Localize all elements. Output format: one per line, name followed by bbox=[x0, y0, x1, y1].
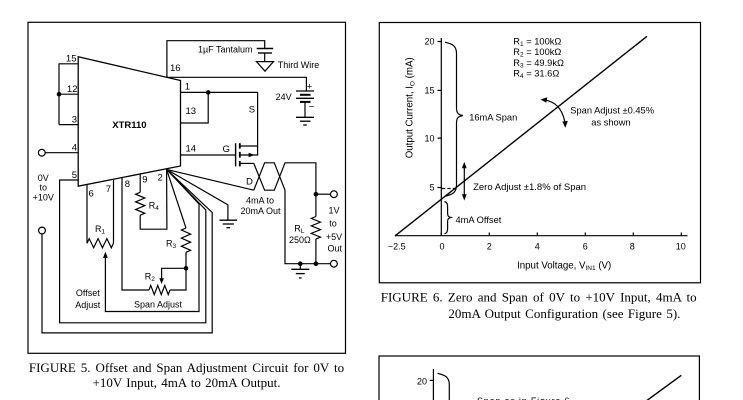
svg-text:16mA Span: 16mA Span bbox=[469, 113, 517, 123]
svg-text:−: − bbox=[309, 102, 315, 113]
twisted pair strand B to load return bbox=[254, 163, 331, 264]
svg-text:7: 7 bbox=[106, 184, 111, 195]
wire pin 2 to twisted pair (drain return) bbox=[167, 169, 254, 190]
svg-text:D: D bbox=[246, 177, 253, 188]
figure 5 border frame bbox=[28, 22, 346, 353]
svg-text:Span as in Figure 6: Span as in Figure 6 bbox=[477, 396, 570, 400]
svg-text:as shown: as shown bbox=[591, 117, 630, 127]
svg-text:250Ω: 250Ω bbox=[289, 235, 311, 245]
figure 6 x-axis bbox=[395, 235, 688, 237]
MOSFET Q1 body line bbox=[240, 146, 258, 155]
svg-text:10: 10 bbox=[676, 241, 686, 251]
svg-text:+10V: +10V bbox=[33, 193, 54, 203]
y tick 15 bbox=[438, 89, 442, 91]
wire RL bottom bbox=[315, 239, 317, 264]
svg-text:Span Adjust: Span Adjust bbox=[134, 300, 183, 310]
wire pin 2 to ground stem bbox=[167, 169, 228, 220]
wire pin 9 to R4 bbox=[139, 174, 141, 192]
svg-text:+5V: +5V bbox=[326, 232, 342, 242]
svg-text:2: 2 bbox=[158, 173, 163, 184]
resistor R3 zigzag bbox=[181, 228, 190, 252]
span arrow head left bbox=[541, 97, 548, 103]
wire pin 2 to R3 bbox=[167, 169, 186, 228]
junction node bottom output bbox=[314, 261, 319, 266]
brace 4mA offset bbox=[445, 202, 451, 234]
resistor R2 zigzag bbox=[149, 285, 170, 294]
svg-text:Offset: Offset bbox=[76, 288, 100, 298]
svg-text:6: 6 bbox=[89, 189, 94, 200]
svg-text:3: 3 bbox=[72, 115, 77, 126]
svg-text:2: 2 bbox=[487, 241, 492, 251]
svg-text:12: 12 bbox=[67, 84, 78, 95]
svg-text:16: 16 bbox=[170, 63, 181, 74]
svg-text:FIGURE 6. Zero and Span of 0V: FIGURE 6. Zero and Span of 0V to +10V In… bbox=[381, 290, 697, 305]
span adjust curved arrow bbox=[544, 100, 565, 122]
MOSFET Q1 source line bbox=[240, 145, 258, 147]
MOSFET Q1 drain line bbox=[240, 162, 254, 164]
junction node pin 1/13 bbox=[206, 90, 211, 95]
terminal circle output top bbox=[331, 191, 338, 198]
svg-text:5: 5 bbox=[429, 183, 434, 193]
wire R3 bottom to junction bbox=[185, 252, 187, 268]
svg-text:5: 5 bbox=[72, 170, 77, 181]
battery 24V plates bbox=[296, 90, 314, 92]
svg-text:S: S bbox=[249, 105, 255, 116]
wire pin 15 bbox=[59, 64, 78, 125]
R1 wiper arrowhead bbox=[103, 252, 108, 259]
junction node top output bbox=[314, 192, 319, 197]
svg-text:8: 8 bbox=[125, 179, 130, 190]
wire R2 right to junction bbox=[170, 268, 186, 290]
svg-text:Input Voltage, VIN1 (V): Input Voltage, VIN1 (V) bbox=[517, 260, 611, 272]
y tick 5 bbox=[438, 187, 442, 189]
x tick 6 bbox=[584, 233, 586, 236]
svg-text:15: 15 bbox=[424, 86, 434, 96]
figure 7 brace start bbox=[438, 373, 450, 400]
MOSFET Q1 gate bar bbox=[235, 143, 237, 166]
figure 7 border frame bbox=[379, 356, 699, 400]
svg-text:9: 9 bbox=[142, 175, 147, 186]
svg-text:G: G bbox=[223, 144, 230, 155]
wire pin 8 to R2 bbox=[122, 178, 149, 291]
svg-text:+: + bbox=[307, 81, 313, 92]
svg-text:15: 15 bbox=[66, 54, 77, 65]
wire pin 6 bbox=[86, 185, 88, 244]
wire pin 1 to MOSFET source bbox=[181, 92, 258, 146]
svg-text:FIGURE 5. Offset and Span Adju: FIGURE 5. Offset and Span Adjustment Cir… bbox=[29, 360, 344, 375]
svg-text:Adjust: Adjust bbox=[75, 300, 101, 310]
svg-text:0: 0 bbox=[439, 241, 444, 251]
zero adjust arrowhead top bbox=[462, 162, 467, 168]
terminal circle input top bbox=[38, 149, 45, 156]
y tick 20 bbox=[438, 41, 442, 43]
svg-text:to: to bbox=[329, 218, 337, 228]
terminal circle output bottom bbox=[331, 260, 338, 267]
dashed 5mA line bbox=[442, 188, 458, 190]
wire R4 bottom loop to pin 2 node bbox=[140, 169, 167, 229]
figure 6 border frame bbox=[379, 23, 700, 283]
wire pin 14 to gate bbox=[181, 154, 236, 156]
capacitor C1 plates bbox=[257, 48, 274, 50]
wire input terminal 2 loop bbox=[42, 169, 212, 333]
x tick 10 bbox=[680, 233, 682, 236]
wire top output branch bbox=[316, 193, 331, 195]
resistor RL zigzag bbox=[311, 217, 320, 240]
svg-text:20mA Output Configuration (see: 20mA Output Configuration (see Figure 5)… bbox=[448, 306, 680, 321]
twisted pair strand A from drain bbox=[254, 163, 316, 217]
ground stem at RL bbox=[299, 264, 301, 270]
ground at RL bbox=[291, 268, 309, 270]
wire R1 wiper to offset rail bbox=[105, 169, 199, 311]
ground under battery bbox=[296, 116, 314, 118]
wire pin 3 bbox=[59, 124, 78, 126]
svg-text:4: 4 bbox=[72, 143, 77, 154]
svg-text:R1: R1 bbox=[95, 224, 106, 236]
svg-text:1: 1 bbox=[185, 82, 190, 93]
wire pin 16 to 24V supply bbox=[167, 77, 307, 91]
svg-text:20: 20 bbox=[424, 37, 434, 47]
figure 6 transfer line bbox=[395, 36, 647, 236]
x tick 4 bbox=[536, 233, 538, 236]
wire pin 16 riser to capacitor bbox=[167, 41, 265, 78]
span arrow head bottom bbox=[562, 121, 568, 128]
svg-text:14: 14 bbox=[186, 144, 197, 155]
third wire triangle symbol bbox=[257, 62, 274, 72]
wire pin 7 bbox=[113, 179, 115, 243]
svg-text:R4 = 31.6Ω: R4 = 31.6Ω bbox=[513, 68, 559, 80]
svg-text:20mA Out: 20mA Out bbox=[240, 206, 281, 216]
wire junction to R2 wiper bbox=[162, 268, 186, 278]
svg-text:Zero Adjust ±1.8% of Span: Zero Adjust ±1.8% of Span bbox=[473, 182, 586, 193]
svg-text:R4: R4 bbox=[149, 201, 160, 213]
svg-text:XTR110: XTR110 bbox=[112, 120, 146, 131]
x tick 8 bbox=[632, 233, 634, 236]
wire pin 5 loop bbox=[60, 169, 206, 322]
MOSFET Q1 channel segments bbox=[239, 143, 241, 148]
x tick 0 bbox=[440, 233, 442, 236]
svg-text:10: 10 bbox=[424, 133, 434, 143]
svg-text:24V: 24V bbox=[276, 92, 292, 102]
junction node pin 12 bbox=[57, 92, 62, 97]
svg-text:20: 20 bbox=[417, 376, 427, 386]
svg-text:to: to bbox=[40, 183, 48, 193]
junction node ground RL bbox=[298, 261, 303, 266]
terminal circle input bottom bbox=[39, 227, 46, 234]
svg-text:RL: RL bbox=[294, 223, 305, 235]
wire pin 4 to input terminal bbox=[45, 152, 78, 154]
resistor R4 zigzag bbox=[136, 192, 145, 215]
zero adjust arrowhead bottom bbox=[462, 194, 467, 200]
svg-text:4mA to: 4mA to bbox=[246, 196, 274, 206]
svg-text:0V: 0V bbox=[38, 173, 49, 183]
y tick 10 bbox=[438, 137, 442, 139]
svg-text:R3: R3 bbox=[166, 239, 177, 251]
svg-text:Span Adjust ±0.45%: Span Adjust ±0.45% bbox=[570, 105, 654, 115]
svg-text:8: 8 bbox=[630, 241, 635, 251]
figure 7 y tick 20 bbox=[430, 379, 434, 381]
wire pin 13 bbox=[181, 92, 209, 123]
figure 7 transfer line bbox=[647, 375, 682, 400]
svg-text:Output Current, IO (mA): Output Current, IO (mA) bbox=[405, 57, 417, 158]
MOSFET body arrow bbox=[249, 153, 255, 158]
R2 wiper arrowhead bbox=[159, 278, 164, 284]
x tick 2 bbox=[488, 233, 490, 236]
figure 7 y-axis bbox=[432, 369, 434, 400]
svg-text:1µF Tantalum: 1µF Tantalum bbox=[198, 45, 253, 55]
svg-text:Third Wire: Third Wire bbox=[278, 60, 320, 70]
op-amp U1 XTR110 body bbox=[78, 57, 180, 186]
svg-text:6: 6 bbox=[583, 241, 588, 251]
svg-text:4mA Offset: 4mA Offset bbox=[456, 215, 502, 225]
svg-text:+10V Input, 4mA to 20mA Output: +10V Input, 4mA to 20mA Output. bbox=[93, 375, 281, 390]
wire pin 12 bbox=[59, 93, 78, 95]
zero adjust arrow stem bbox=[463, 167, 465, 196]
svg-text:R2: R2 bbox=[145, 272, 156, 284]
svg-text:13: 13 bbox=[186, 106, 197, 117]
svg-text:1V: 1V bbox=[328, 205, 339, 215]
svg-text:4: 4 bbox=[535, 241, 540, 251]
junction node R2/R3 bbox=[184, 266, 189, 271]
svg-text:−2.5: −2.5 bbox=[388, 241, 406, 251]
svg-text:Out: Out bbox=[328, 244, 343, 254]
figure 6 y-axis bbox=[440, 38, 442, 236]
ground at pin 2 fan bbox=[220, 219, 238, 221]
brace 16mA span bbox=[445, 42, 463, 196]
resistor R1 zigzag bbox=[87, 239, 113, 248]
